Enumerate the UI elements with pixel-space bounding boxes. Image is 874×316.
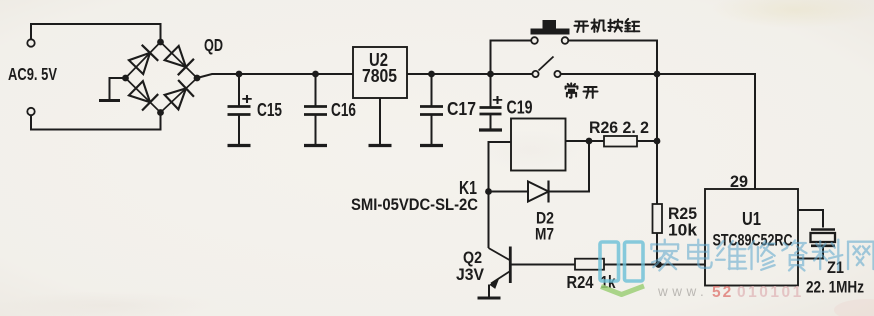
node K1/D2 (485, 188, 492, 195)
node relay right (586, 138, 593, 145)
wire AC bottom to bridge (31, 111, 161, 130)
capacitor C15 (polarized) (238, 74, 240, 106)
MCU U1 box (705, 189, 798, 286)
resistor R25 (653, 204, 663, 233)
svg-text:C15: C15 (257, 100, 282, 120)
wire relay left connector (489, 142, 512, 248)
diode D2 wire right (549, 141, 590, 192)
wire U1 to crystal top (798, 210, 823, 228)
bridge rectifier QD diamond wires (126, 42, 198, 113)
switch contact left (532, 71, 538, 77)
relay K1 box (511, 119, 566, 171)
svg-text:AC9. 5V: AC9. 5V (8, 64, 57, 84)
node C15 (236, 71, 243, 78)
push button cap (531, 29, 570, 35)
push button left contact (531, 37, 538, 44)
bridge diode D-a (left-top) (129, 53, 150, 74)
wire AC top to bridge (31, 24, 161, 40)
svg-text:29: 29 (730, 172, 748, 191)
diode D2 wire left (489, 191, 529, 193)
wire right bus down (656, 74, 658, 204)
bridge node left (122, 75, 129, 82)
svg-text:52: 52 (712, 284, 733, 301)
svg-text:R24: R24 (567, 272, 594, 292)
node R24/R25 (655, 261, 662, 268)
node C19 / button branch (487, 71, 494, 78)
bridge node top (157, 39, 164, 46)
ground Q2 emitter (478, 297, 501, 300)
svg-text:www.: www. (657, 284, 708, 299)
push button right contact (562, 37, 569, 44)
label 开机按钮 (power button) (574, 21, 588, 32)
label 常开 (normally open) (566, 83, 578, 97)
switch contact right (554, 71, 560, 77)
svg-text:QD: QD (204, 35, 223, 55)
wire main rail switch to right corner, down to U1 pin29 (561, 74, 756, 189)
watermark text 家电维修资料网 (651, 240, 678, 271)
svg-text:SMI-05VDC-SL-2C: SMI-05VDC-SL-2C (351, 196, 478, 214)
wire Q2 base line (511, 264, 575, 266)
svg-text:R26 2. 2: R26 2. 2 (589, 118, 649, 137)
svg-text:C17: C17 (447, 99, 476, 119)
transistor Q2 base bar (509, 247, 512, 284)
svg-text:22. 1MHz: 22. 1MHz (806, 278, 864, 297)
svg-text:M7: M7 (535, 225, 554, 244)
transistor Q2 emitter (491, 272, 510, 284)
capacitor C17 (431, 74, 433, 106)
AC input terminal top (27, 39, 34, 46)
svg-text:U1: U1 (742, 209, 761, 229)
wire Q2 emitter to ground (488, 285, 490, 297)
capacitor C19 (polarized) (490, 74, 492, 107)
ground at bridge left node (110, 78, 126, 99)
wire button branch (491, 41, 532, 75)
diode D2 (528, 182, 549, 202)
wire Q2 collector diag (489, 248, 510, 260)
switch lever (539, 57, 554, 71)
bridge node right (194, 75, 201, 82)
svg-text:7805: 7805 (362, 66, 397, 86)
wire main rail bridge to U2 (197, 74, 353, 78)
bridge diode D-c (left-bottom) (129, 81, 150, 102)
wire crystal bottom to U1 (798, 247, 823, 259)
svg-text:C19: C19 (507, 98, 533, 118)
resistor R26 (589, 140, 604, 142)
node R26 right (654, 138, 661, 145)
node C17 (428, 71, 435, 78)
resistor R24 (575, 259, 604, 270)
svg-text:K1: K1 (459, 178, 477, 198)
svg-text:J3V: J3V (456, 265, 485, 284)
svg-text:+: + (492, 92, 503, 109)
crystal Z1 (811, 228, 835, 231)
wire relay right connector (566, 140, 590, 142)
wire button to right (568, 41, 657, 75)
bridge diode D-d (bottom-right) (165, 88, 186, 109)
push button plunger (543, 20, 557, 29)
capacitor C16 (315, 74, 317, 106)
node C16 (312, 71, 319, 78)
bridge node bottom (157, 109, 164, 116)
bridge diode D-b (top-right) (165, 46, 186, 67)
watermark book logo (600, 242, 643, 281)
svg-text:C16: C16 (331, 100, 356, 120)
node right of switch (654, 71, 661, 78)
svg-text:Z1: Z1 (827, 258, 844, 277)
svg-text:+: + (242, 91, 253, 108)
svg-text:010101: 010101 (737, 284, 804, 301)
wire main rail U2 to switch (407, 73, 532, 75)
U2 ground pin (379, 98, 381, 145)
regulator U2 7805 box (353, 47, 407, 98)
svg-text:10k: 10k (668, 221, 698, 240)
AC input terminal bottom (27, 108, 34, 115)
